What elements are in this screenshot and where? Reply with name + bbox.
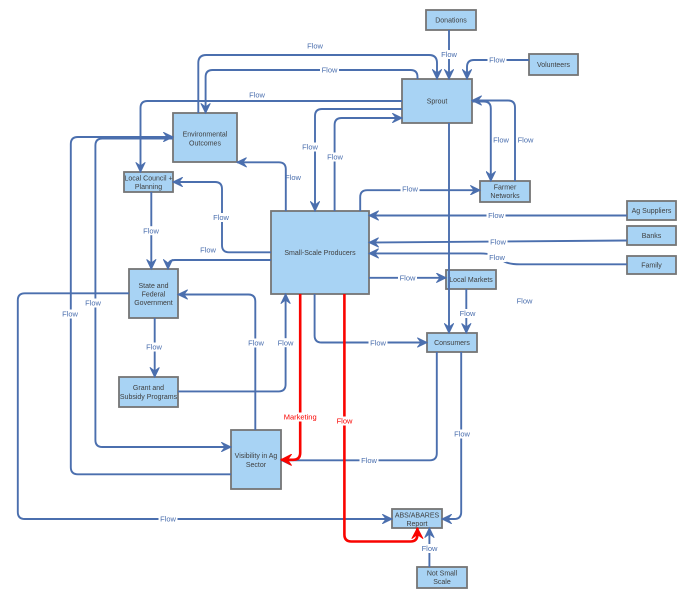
svg-text:Grant and: Grant and <box>133 385 164 392</box>
edge Small-Scale Producers to Farmer Networks <box>360 190 480 211</box>
node Farmer Networks <box>480 181 530 202</box>
svg-text:Flow: Flow <box>460 309 476 318</box>
svg-text:Flow: Flow <box>400 274 416 283</box>
node Local Markets <box>446 270 496 289</box>
label Flow (Consumers to Visibility) <box>360 456 379 465</box>
svg-text:Volunteers: Volunteers <box>537 62 571 69</box>
svg-text:Visibility in Ag: Visibility in Ag <box>235 453 278 460</box>
edge Grant and Subsidy Programs to Small-Scale Producers <box>178 294 286 391</box>
edge Volunteers to Sprout <box>467 60 529 79</box>
edge Small-Scale Producers to Local Markets <box>369 277 446 279</box>
svg-text:Flow: Flow <box>302 143 318 152</box>
label Flow (Volunteers to Sprout) <box>488 56 507 65</box>
label Flow (SSP to Consumers) <box>369 339 388 348</box>
label Flow (SSP to LCP) <box>212 213 231 222</box>
edge Farmer Networks to Sprout <box>472 101 515 182</box>
edge Visibility in Ag Sector to Environmental Outcomes <box>71 137 231 474</box>
svg-text:Farmer: Farmer <box>494 185 517 192</box>
node ABS/ABARES Report <box>392 509 442 528</box>
svg-text:Flow: Flow <box>322 66 338 75</box>
svg-text:Marketing: Marketing <box>284 413 317 422</box>
svg-text:Environmental: Environmental <box>183 132 228 139</box>
svg-text:Flow: Flow <box>518 136 534 145</box>
svg-text:State and: State and <box>139 283 169 290</box>
label Flow (Farmer Networks to Sprout) <box>518 136 534 145</box>
label Flow (Sprout to SSP) <box>301 143 320 152</box>
label Flow (SFG to ABS) <box>159 515 178 524</box>
edge State and Federal Government to Grant and Subsidy Programs <box>154 318 156 377</box>
svg-text:Flow: Flow <box>490 238 506 247</box>
node Volunteers <box>529 54 578 75</box>
label Flow (Consumers to ABS) <box>453 430 472 439</box>
svg-text:ABS/ABARES: ABS/ABARES <box>395 513 440 520</box>
svg-text:Outcomes: Outcomes <box>189 141 221 148</box>
node Donations <box>426 10 476 30</box>
edge Consumers to ABS/ABARES Report <box>442 352 461 519</box>
node Environmental Outcomes <box>173 113 237 162</box>
label Flow (Env to Sprout) <box>307 42 323 51</box>
svg-text:Not Small: Not Small <box>427 571 458 578</box>
svg-text:Flow: Flow <box>327 153 343 162</box>
label Flow (Visibility to Env) <box>61 310 80 319</box>
svg-text:Subsidy Programs: Subsidy Programs <box>120 394 178 401</box>
label Flow (SSP to Sprout) <box>326 153 345 162</box>
edge Ag Suppliers to Small-Scale Producers <box>369 215 627 217</box>
edge State and Federal Government to ABS/ABARES Report <box>18 293 392 519</box>
label Flow (Sprout to Farmer Networks) <box>493 136 509 145</box>
edge Not Small Scale to ABS/ABARES Report <box>428 528 430 567</box>
label Flow (Not Small Scale to ABS) <box>420 544 439 553</box>
label Flow (SSP to Env) <box>285 173 301 182</box>
label Flow (Env to Visibility) <box>84 299 103 308</box>
svg-text:Flow: Flow <box>441 50 457 59</box>
edge Donations to Sprout <box>448 30 450 79</box>
svg-text:Flow: Flow <box>143 226 159 235</box>
edge red Small-Scale Producers to ABS/ABARES Report <box>344 294 417 542</box>
edge Small-Scale Producers to State and Federal Government <box>168 260 271 269</box>
svg-text:Flow: Flow <box>278 338 294 347</box>
edge Sprout to Local Council + Planning <box>141 101 403 172</box>
edge Environmental Outcomes to Visibility in Ag Sector <box>95 139 231 448</box>
node Small-Scale Producers <box>271 211 369 294</box>
label Flow (Donations to Sprout) <box>440 50 459 59</box>
node Consumers <box>427 333 477 352</box>
svg-text:Flow: Flow <box>248 339 264 348</box>
label Flow (Ag Suppliers to SSP) <box>487 211 506 220</box>
label Flow (SFG to Grant) <box>145 343 164 352</box>
svg-text:Local Council +: Local Council + <box>124 176 172 183</box>
edge Banks to Small-Scale Producers <box>369 241 627 243</box>
svg-text:Flow: Flow <box>488 211 504 220</box>
label Flow (Sprout to LCP) <box>249 91 265 100</box>
node Local Council + Planning <box>124 172 173 192</box>
node Not Small Scale <box>417 567 467 588</box>
svg-text:Sector: Sector <box>246 462 267 469</box>
node Visibility in Ag Sector <box>231 430 281 489</box>
svg-text:Flow: Flow <box>361 456 377 465</box>
label Flow (floating) <box>517 297 533 306</box>
edge Sprout to Farmer Networks <box>472 102 491 182</box>
svg-text:Report: Report <box>406 521 427 528</box>
node Banks <box>627 226 676 245</box>
svg-text:Flow: Flow <box>285 173 301 182</box>
svg-text:Flow: Flow <box>85 299 101 308</box>
label Flow (Local Markets to Consumers) <box>458 309 477 318</box>
edge Environmental Outcomes to Sprout (top long line) <box>198 55 437 113</box>
label Flow (Grant to SSP) <box>276 338 295 347</box>
svg-text:Flow: Flow <box>493 136 509 145</box>
edge Small-Scale Producers to Local Council + Planning <box>173 182 271 252</box>
label Flow (LCP to SFG) <box>142 226 161 235</box>
svg-text:Flow: Flow <box>160 515 176 524</box>
svg-text:Flow: Flow <box>422 544 438 553</box>
svg-text:Flow: Flow <box>454 430 470 439</box>
svg-text:Flow: Flow <box>307 42 323 51</box>
edge Small-Scale Producers to Sprout <box>335 118 402 211</box>
svg-text:Planning: Planning <box>135 184 162 191</box>
svg-text:Networks: Networks <box>490 193 520 200</box>
svg-text:Consumers: Consumers <box>434 340 470 347</box>
label Flow (SSP to Local Markets) <box>398 274 417 283</box>
svg-text:Federal: Federal <box>142 292 166 299</box>
label Flow (Visibility to SFG) <box>247 339 266 348</box>
svg-text:Banks: Banks <box>642 233 662 240</box>
edge Sprout to Small-Scale Producers <box>315 109 402 211</box>
node Family <box>627 256 676 274</box>
svg-text:Flow: Flow <box>489 253 505 262</box>
edge red Small-Scale Producers to Visibility in Ag Sector (Marketing) <box>281 294 300 460</box>
svg-text:Flow: Flow <box>213 213 229 222</box>
edge Sprout to Environmental Outcomes <box>206 70 418 113</box>
edge Sprout to Consumers <box>448 123 450 333</box>
svg-text:Sprout: Sprout <box>427 99 448 106</box>
svg-text:Flow: Flow <box>62 310 78 319</box>
svg-text:Donations: Donations <box>435 18 467 25</box>
label Flow (Family to SSP) <box>488 253 507 262</box>
svg-text:Flow: Flow <box>489 56 505 65</box>
svg-text:Flow: Flow <box>402 184 418 193</box>
svg-text:Small-Scale Producers: Small-Scale Producers <box>284 250 356 257</box>
node Sprout <box>402 79 472 123</box>
label Flow (Banks to SSP) <box>489 238 508 247</box>
edge Small-Scale Producers to Environmental Outcomes <box>237 162 286 211</box>
edge Consumers to Visibility in Ag Sector <box>281 352 437 460</box>
svg-text:Scale: Scale <box>433 579 451 586</box>
edge Visibility in Ag Sector to State and Federal Government <box>178 295 255 431</box>
svg-text:Flow: Flow <box>146 343 162 352</box>
node State and Federal Government <box>129 269 178 318</box>
label Marketing (red) <box>281 413 320 422</box>
node Ag Suppliers <box>627 201 676 220</box>
svg-text:Flow: Flow <box>200 246 216 255</box>
edge Family to Small-Scale Producers <box>369 253 627 264</box>
svg-text:Flow: Flow <box>370 339 386 348</box>
svg-text:Flow: Flow <box>337 417 353 426</box>
svg-text:Family: Family <box>641 263 662 270</box>
edge Small-Scale Producers to Consumers <box>315 294 427 343</box>
edge Local Council + Planning to State and Federal Government <box>150 192 152 269</box>
svg-text:Flow: Flow <box>249 91 265 100</box>
node Grant and Subsidy Programs <box>119 377 178 407</box>
svg-text:Ag Suppliers: Ag Suppliers <box>632 208 672 215</box>
edge Local Markets to Consumers <box>465 289 467 333</box>
label Flow (SSP to Farmer Networks) <box>401 184 420 193</box>
label Flow (Sprout to Env) <box>320 66 339 75</box>
svg-text:Local Markets: Local Markets <box>449 277 493 284</box>
svg-text:Government: Government <box>134 300 173 307</box>
label Flow (SSP to SFG) <box>199 246 218 255</box>
label Flow (red, SSP to ABS) <box>335 417 354 426</box>
svg-text:Flow: Flow <box>517 297 533 306</box>
